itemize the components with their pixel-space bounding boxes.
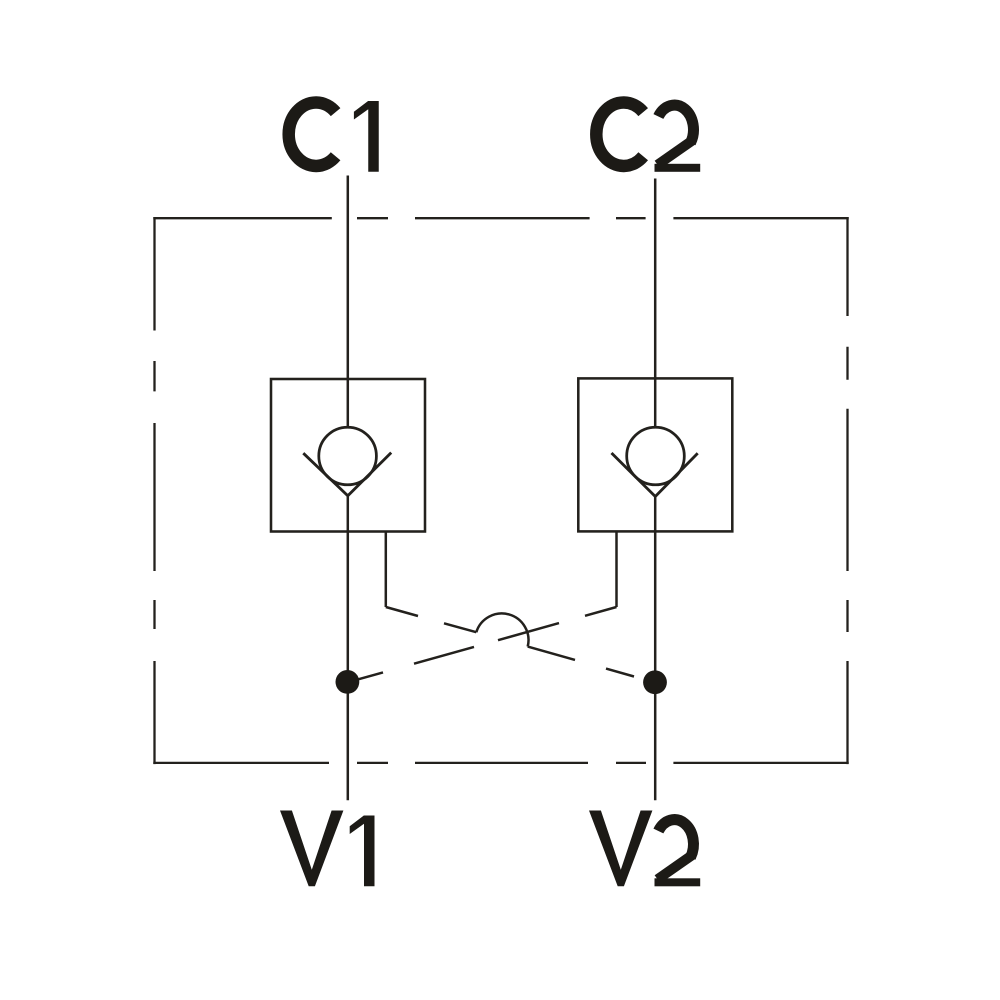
junction dot on V2 line xyxy=(643,670,667,694)
wire V1 vertical line (from CV1 seat through junction to port V1) xyxy=(347,496,350,801)
check valve CV2 seat (V) xyxy=(612,453,698,497)
pilot line 1 vertical tap from CV1 xyxy=(385,531,388,607)
pilot line 2 vertical tap from CV2 xyxy=(615,532,618,608)
port label V1 letter V xyxy=(280,811,343,887)
check valve CV1 ball (circle) xyxy=(319,427,377,485)
wire port C1 vertical line xyxy=(347,176,350,428)
port label C2 digit 2 curve xyxy=(658,105,693,143)
port label V2 letter V xyxy=(589,811,652,887)
check valve CV2 body square xyxy=(578,378,732,531)
port label C2 digit 2 base bar xyxy=(655,164,701,172)
enclosure border (dash-dot manifold boundary) top edge xyxy=(153,217,848,219)
pilot line 1 dashed diagonal (CV1 tap to V2 junction) with crossover hump xyxy=(386,607,634,677)
check valve CV2 ball (circle) xyxy=(627,427,685,485)
wire V2 vertical line (from CV2 seat through junction to port V2) xyxy=(654,497,657,801)
port label C2 digit 2 diagonal xyxy=(658,140,694,165)
port label V2 digit 2 diagonal xyxy=(658,855,694,880)
port label C2 letter C xyxy=(596,102,643,166)
check valve CV1 seat (V) xyxy=(303,453,391,496)
enclosure border bottom edge xyxy=(153,762,848,764)
wire port C2 vertical line xyxy=(654,179,657,428)
junction dot on V1 line xyxy=(336,670,360,694)
enclosure border right edge xyxy=(846,217,848,764)
pilot line 2 dashed diagonal (CV2 tap to V1 junction) xyxy=(352,607,617,681)
port label C1 digit 1 xyxy=(354,101,379,172)
port label C1 letter C xyxy=(289,102,336,166)
port label V2 digit 2 curve xyxy=(658,820,693,858)
check valve CV1 body square xyxy=(271,379,425,532)
enclosure border left edge xyxy=(153,217,155,764)
port label V1 digit 1 xyxy=(350,815,375,886)
port label V2 digit 2 base bar xyxy=(655,878,701,886)
